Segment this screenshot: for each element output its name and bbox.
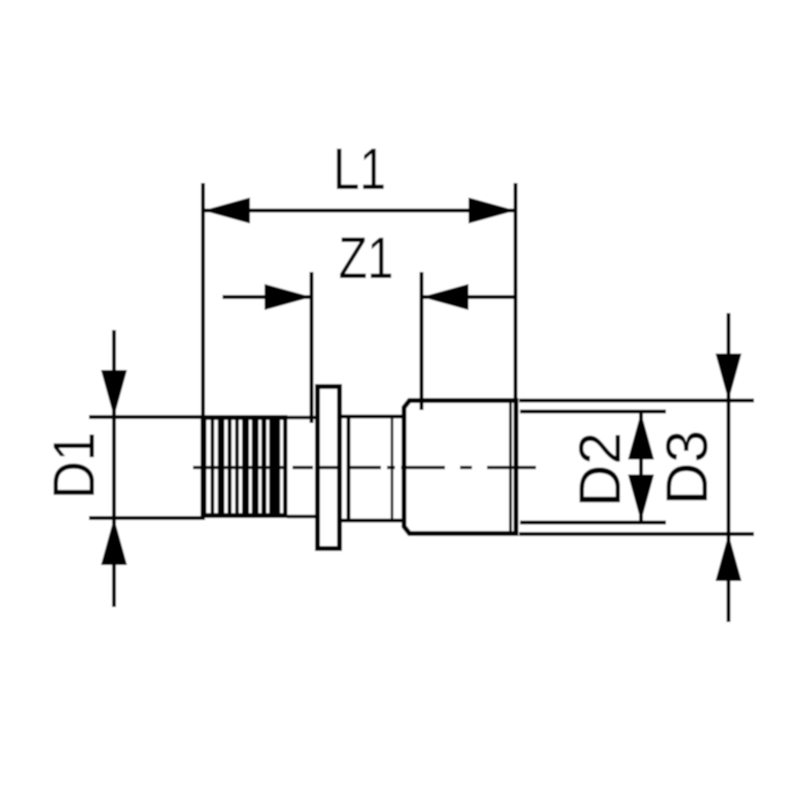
svg-text:Z1: Z1 [339, 226, 394, 291]
press sleeve body (large cylinder) [404, 401, 516, 534]
dimension D2 [520, 412, 666, 523]
dimension D3 [519, 313, 754, 622]
threaded section (male thread) [201, 415, 288, 518]
flange (collar disc) [318, 387, 340, 549]
dimension D1 [89, 330, 205, 607]
svg-text:D2: D2 [568, 432, 633, 507]
dimension L1 [203, 183, 516, 415]
dimension Z1 [223, 272, 516, 423]
neck between thread and flange [287, 418, 316, 517]
svg-text:D3: D3 [655, 430, 720, 505]
body end cap line [509, 401, 512, 534]
neck inner edge line [391, 417, 394, 520]
svg-text:L1: L1 [333, 137, 386, 202]
centerline (dash-dot axis) [193, 466, 536, 469]
svg-text:D1: D1 [42, 432, 107, 499]
middle neck section [342, 415, 404, 522]
